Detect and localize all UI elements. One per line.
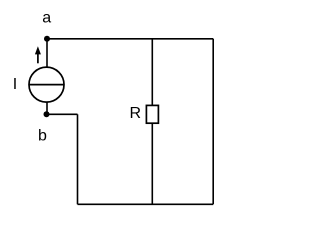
- svg-text:R: R: [130, 105, 142, 122]
- node a junction dot: [44, 36, 50, 42]
- svg-text:a: a: [42, 10, 51, 27]
- wire right side: [212, 39, 214, 205]
- wire current source bottom to node b: [46, 102, 48, 114]
- wire left lower vertical (from node b corner down): [77, 114, 79, 204]
- wire bottom: [78, 203, 214, 205]
- current source I (circle with bar): [29, 67, 64, 102]
- wire node a to current source top: [46, 39, 48, 67]
- wire node b horizontal: [47, 113, 78, 115]
- resistor branch wire bottom: [151, 123, 153, 204]
- resistor R body: [146, 105, 158, 123]
- svg-text:I: I: [13, 76, 17, 93]
- svg-text:b: b: [38, 127, 47, 144]
- node b junction dot: [44, 111, 50, 117]
- resistor branch wire top: [151, 39, 153, 106]
- current direction arrow: [37, 52, 39, 63]
- wire top (node a to top-right corner): [47, 38, 213, 40]
